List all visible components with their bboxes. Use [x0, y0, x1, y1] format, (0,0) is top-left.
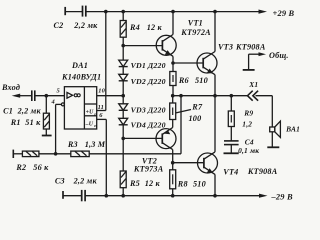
svg-text:0,1 мк: 0,1 мк: [238, 146, 259, 155]
svg-text:R1: R1: [10, 118, 21, 127]
svg-text:КТ973А: КТ973А: [133, 164, 164, 173]
svg-text:R7: R7: [191, 102, 203, 111]
svg-text:R9: R9: [243, 109, 253, 118]
svg-text:С1: С1: [3, 107, 13, 116]
svg-text:R6: R6: [178, 76, 190, 85]
svg-text:п: п: [94, 123, 97, 128]
svg-text:R5: R5: [129, 179, 140, 188]
svg-text:R2: R2: [15, 163, 26, 172]
svg-text:п: п: [94, 111, 97, 116]
svg-text:Д220: Д220: [147, 61, 166, 70]
svg-text:6: 6: [99, 112, 103, 119]
svg-text:К140ВУД1: К140ВУД1: [61, 73, 101, 82]
svg-text:VT3: VT3: [218, 42, 233, 51]
svg-text:510: 510: [195, 76, 208, 85]
svg-text:Д220: Д220: [147, 77, 166, 86]
svg-text:Д220: Д220: [147, 120, 166, 129]
svg-text:ВА1: ВА1: [285, 125, 300, 134]
svg-text:–29 В: –29 В: [271, 192, 293, 201]
svg-text:2,2 мк: 2,2 мк: [73, 21, 98, 30]
svg-text:1,3 М: 1,3 М: [85, 140, 106, 149]
svg-text:VD2: VD2: [131, 77, 146, 86]
svg-text:+29 В: +29 В: [273, 9, 295, 18]
svg-text:100: 100: [189, 114, 202, 123]
svg-text:R4: R4: [129, 23, 140, 32]
svg-text:+U: +U: [86, 110, 95, 116]
svg-text:1,2: 1,2: [242, 119, 252, 128]
svg-text:Общ.: Общ.: [269, 51, 289, 60]
svg-text:С2: С2: [54, 21, 64, 30]
svg-text:12 к: 12 к: [147, 23, 163, 32]
svg-text:КТ972А: КТ972А: [180, 28, 211, 37]
svg-text:11: 11: [98, 104, 104, 111]
svg-text:X1: X1: [248, 80, 258, 89]
svg-text:510: 510: [193, 180, 206, 189]
svg-text:Вход: Вход: [1, 83, 20, 92]
svg-text:51 к: 51 к: [25, 118, 41, 127]
svg-text:56 к: 56 к: [33, 163, 49, 172]
svg-text:КТ908А: КТ908А: [235, 42, 266, 51]
svg-text:5: 5: [57, 88, 61, 95]
svg-text:КТ908А: КТ908А: [247, 167, 278, 176]
svg-text:VT4: VT4: [223, 167, 238, 176]
svg-text:R3: R3: [67, 140, 78, 149]
svg-text:2,2 мк: 2,2 мк: [17, 107, 42, 116]
svg-text:10: 10: [98, 88, 105, 95]
svg-text:–U: –U: [85, 121, 94, 127]
svg-text:Д220: Д220: [147, 105, 166, 114]
svg-text:VD4: VD4: [131, 120, 146, 129]
svg-text:4: 4: [51, 98, 55, 105]
svg-text:VT1: VT1: [188, 18, 203, 27]
svg-text:DA1: DA1: [71, 61, 88, 70]
svg-text:2,2 мк: 2,2 мк: [73, 177, 98, 186]
svg-text:VD1: VD1: [131, 61, 146, 70]
svg-text:С3: С3: [55, 177, 65, 186]
svg-text:VD3: VD3: [131, 105, 146, 114]
svg-text:R8: R8: [177, 180, 188, 189]
svg-text:12 к: 12 к: [145, 179, 161, 188]
